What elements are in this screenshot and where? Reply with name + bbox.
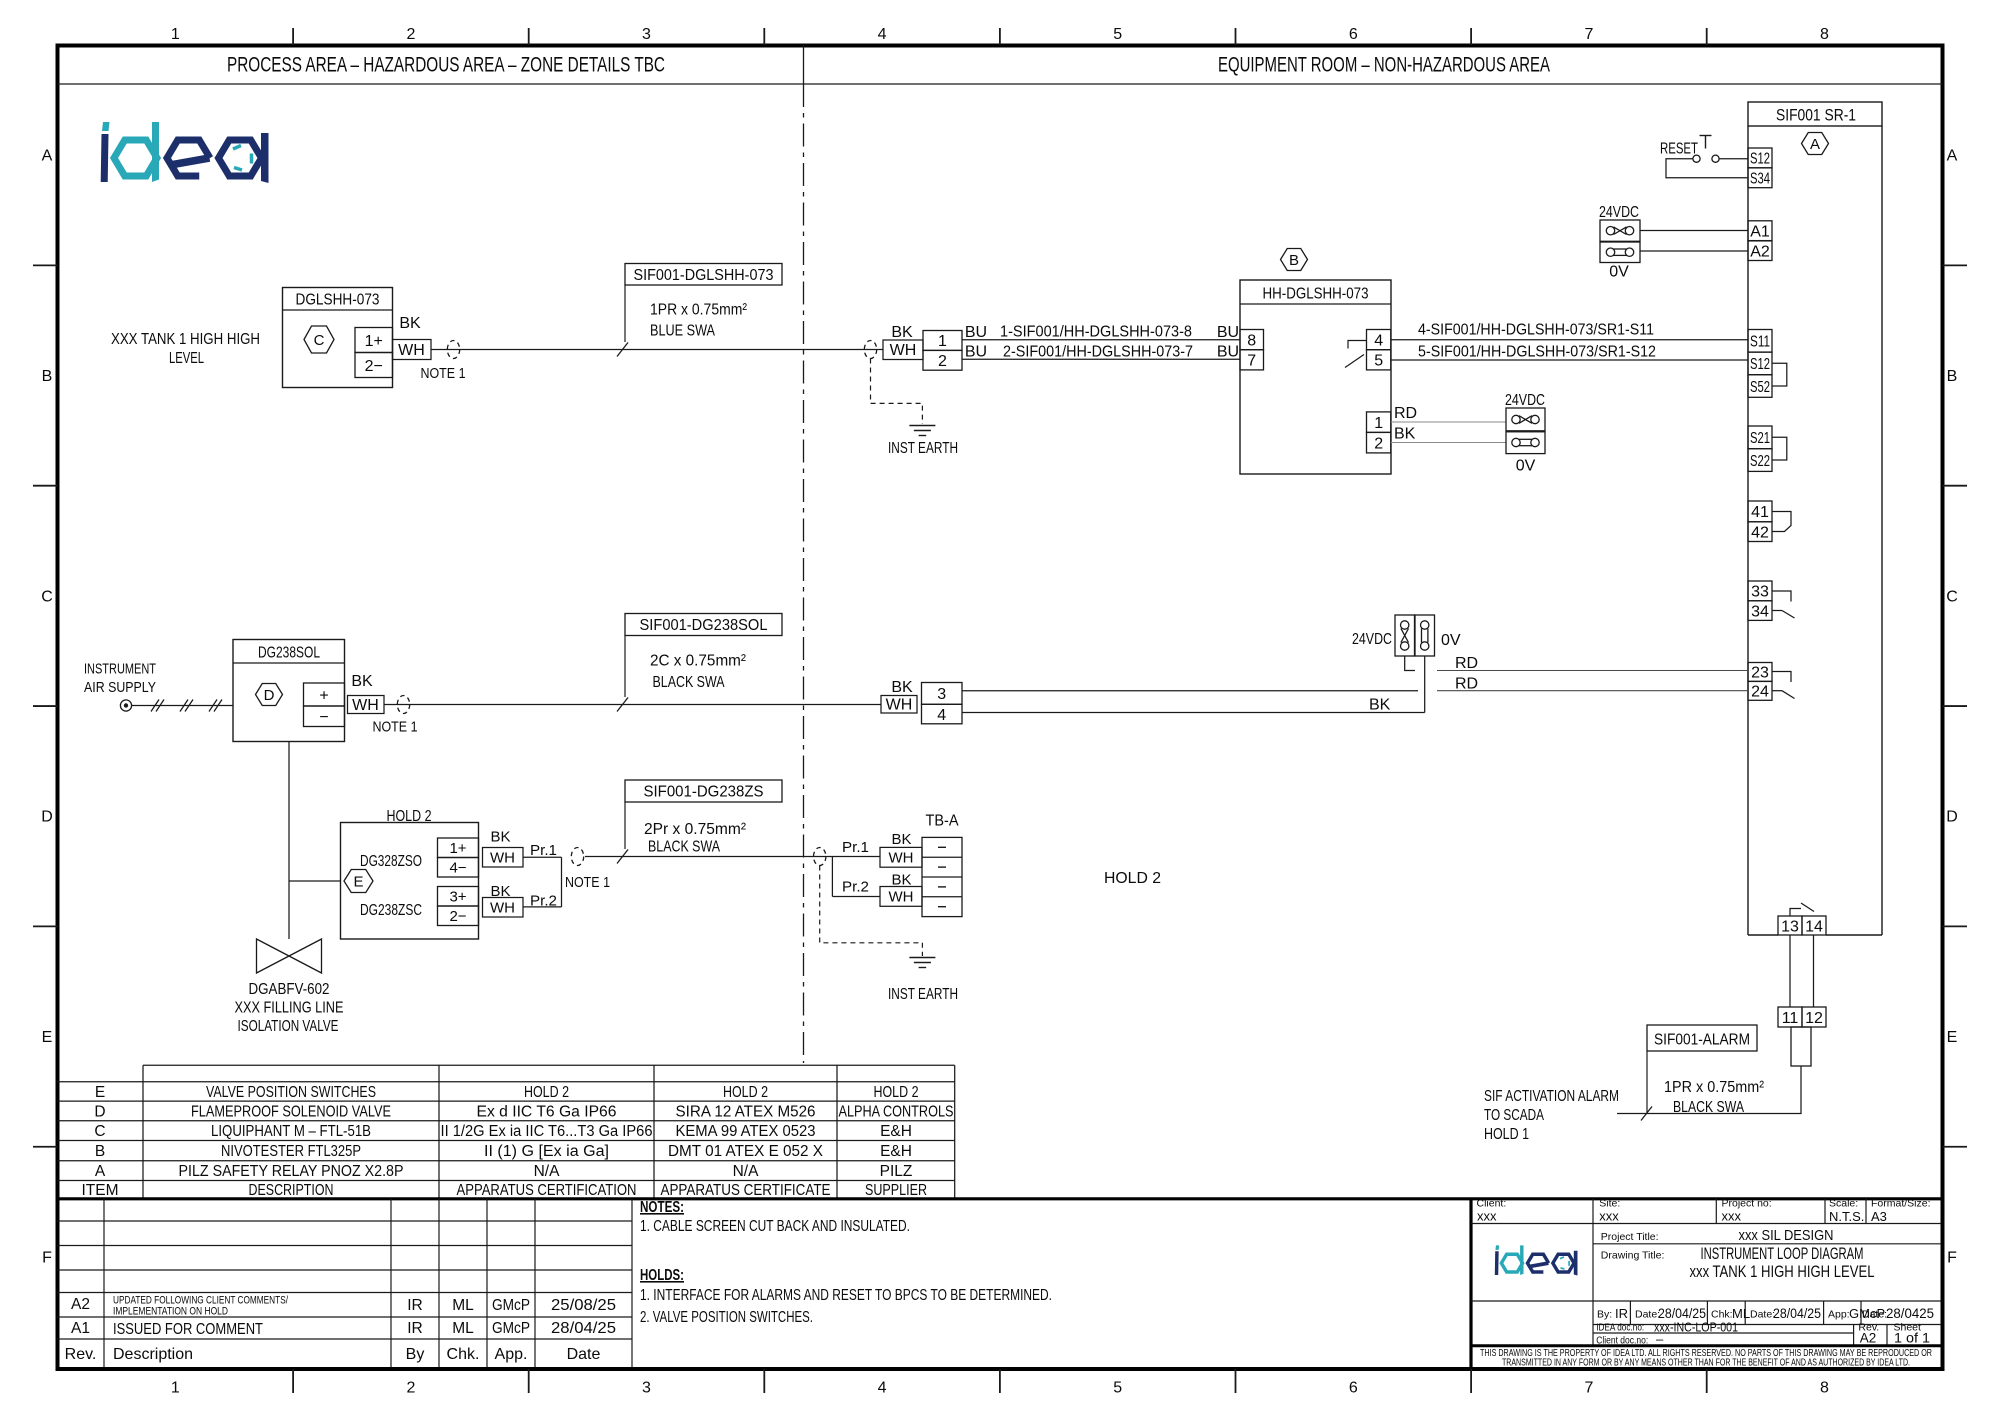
wire terminal 5 to safety relay S12 bbox=[1391, 359, 1748, 361]
screen drain to instrument earth bbox=[871, 359, 923, 425]
svg-text:BK: BK bbox=[1394, 426, 1416, 443]
stub from 24VDC fuse bbox=[1405, 656, 1415, 671]
header strip line bbox=[58, 83, 1943, 85]
svg-text:II (1) G [Ex ia Ga]: II (1) G [Ex ia Ga] bbox=[484, 1143, 609, 1160]
svg-text:5: 5 bbox=[1113, 1380, 1122, 1397]
svg-text:NIVOTESTER FTL325P: NIVOTESTER FTL325P bbox=[221, 1143, 361, 1160]
link terminal 0V (relay supply) bbox=[1600, 242, 1640, 281]
nivotester supply terminal 2 bbox=[1367, 432, 1391, 453]
svg-text:BLACK SWA: BLACK SWA bbox=[653, 674, 725, 691]
svg-text:4: 4 bbox=[937, 707, 946, 724]
alarm cable wire to scada bbox=[1617, 1066, 1801, 1114]
valve position switch box bbox=[341, 823, 479, 940]
cable wire to panel TB-A bbox=[585, 856, 880, 858]
svg-text:1-SIF001/HH-DGLSHH-073-8: 1-SIF001/HH-DGLSHH-073-8 bbox=[1000, 324, 1192, 341]
svg-text:II 1/2G Ex ia IIC T6...T3: II 1/2G Ex ia IIC T6...T3 Ga IP66 bbox=[441, 1123, 653, 1140]
svg-text:NOTE 1: NOTE 1 bbox=[565, 874, 610, 891]
svg-text:1: 1 bbox=[1374, 415, 1383, 432]
idea logo title block bbox=[1495, 1245, 1578, 1275]
nivotester terminal 8 bbox=[1240, 330, 1264, 350]
air supply pipe with break marks bbox=[132, 700, 233, 712]
svg-text:BK: BK bbox=[351, 673, 373, 690]
cable label box SIF001-DGLSHH-073 bbox=[625, 264, 782, 286]
svg-text:BK: BK bbox=[891, 831, 911, 848]
svg-text:WH: WH bbox=[352, 697, 379, 714]
pair wires join left bbox=[523, 857, 562, 907]
safety relay SR-1 body outline bbox=[1748, 126, 1882, 935]
drawing title rows bbox=[1601, 1245, 1875, 1281]
svg-text:E: E bbox=[1947, 1029, 1958, 1046]
svg-text:TB-A: TB-A bbox=[926, 813, 959, 830]
solenoid valve DG238SOL box bbox=[233, 640, 345, 742]
svg-text:BK: BK bbox=[490, 829, 510, 846]
svg-text:INST EARTH: INST EARTH bbox=[888, 440, 958, 457]
svg-text:DESCRIPTION: DESCRIPTION bbox=[249, 1182, 334, 1199]
svg-text:−: − bbox=[319, 709, 328, 726]
svg-text:2C x 0.75mm²: 2C x 0.75mm² bbox=[650, 653, 747, 670]
svg-text:E&H: E&H bbox=[880, 1143, 912, 1160]
cable gland below 11-12 bbox=[1791, 1027, 1811, 1066]
svg-text:IDEA doc.no:: IDEA doc.no: bbox=[1596, 1322, 1644, 1334]
solenoid terminal + bbox=[304, 683, 345, 706]
svg-text:BLUE SWA: BLUE SWA bbox=[650, 323, 715, 340]
wire nivotester supply positive bbox=[1391, 421, 1506, 423]
wire 24VDC to A1 bbox=[1640, 230, 1748, 232]
svg-text:Drawing Title:: Drawing Title: bbox=[1601, 1250, 1665, 1262]
cable spec 2Pr x 0.75mm2 BLACK SWA bbox=[644, 821, 747, 856]
relay terminal S34 bbox=[1748, 168, 1772, 188]
svg-text:1. INTERFACE FOR ALARMS AN: 1. INTERFACE FOR ALARMS AND RESET TO BPC… bbox=[640, 1287, 1052, 1304]
svg-text:IR: IR bbox=[407, 1297, 423, 1314]
solenoid terminal - bbox=[304, 706, 345, 727]
jumper S12 to S52 bbox=[1772, 363, 1787, 386]
wire 14 to 12 bbox=[1813, 935, 1815, 1007]
svg-text:DGLSHH-073: DGLSHH-073 bbox=[296, 292, 380, 309]
svg-text:Date:: Date: bbox=[1862, 1309, 1887, 1321]
svg-text:Date:: Date: bbox=[1750, 1309, 1775, 1321]
svg-text:B: B bbox=[95, 1143, 105, 1160]
contact symbol 33-34 bbox=[1772, 591, 1795, 618]
svg-text:App:: App: bbox=[1828, 1309, 1850, 1321]
svg-text:S22: S22 bbox=[1750, 453, 1770, 470]
svg-text:xxx: xxx bbox=[1477, 1209, 1497, 1224]
cable label box SIF001-DG238ZS bbox=[625, 780, 782, 802]
svg-text:RESET: RESET bbox=[1660, 141, 1698, 158]
cable spec 1PR x 0.75mm2 BLUE SWA bbox=[650, 302, 748, 340]
svg-text:33: 33 bbox=[1751, 584, 1769, 601]
cable label box SIF001-DG238SOL bbox=[625, 614, 782, 636]
svg-text:ISOLATION VALVE: ISOLATION VALVE bbox=[238, 1018, 339, 1035]
svg-text:2: 2 bbox=[406, 26, 415, 43]
cable screen symbol at transmitter bbox=[447, 341, 459, 359]
svg-text:E: E bbox=[353, 873, 363, 890]
svg-text:BK: BK bbox=[399, 315, 421, 332]
svg-text:B: B bbox=[42, 368, 53, 385]
nivotester terminal 5 bbox=[1367, 350, 1391, 370]
svg-text:xxx: xxx bbox=[1722, 1209, 1742, 1224]
svg-text:2: 2 bbox=[938, 353, 947, 370]
air supply source symbol bbox=[120, 700, 131, 711]
svg-text:PILZ SAFETY RELAY PNOZ X2.: PILZ SAFETY RELAY PNOZ X2.8P bbox=[179, 1163, 404, 1180]
svg-text:7: 7 bbox=[1584, 1380, 1593, 1397]
svg-text:Chk.: Chk. bbox=[447, 1346, 480, 1363]
svg-text:XXX FILLING LINE: XXX FILLING LINE bbox=[235, 1000, 344, 1017]
hexagon E bbox=[344, 870, 373, 893]
service label XXX TANK 1 HIGH HIGH LEVEL bbox=[111, 331, 260, 367]
switch terminal 1+ bbox=[438, 838, 479, 858]
svg-text:A: A bbox=[1810, 136, 1820, 153]
svg-text:APPARATUS CERTIFICATION: APPARATUS CERTIFICATION bbox=[457, 1182, 637, 1199]
svg-text:NOTES:: NOTES: bbox=[640, 1199, 684, 1216]
hexagon D bbox=[256, 684, 283, 706]
cable screen symbol at TB-A side bbox=[814, 848, 826, 866]
relay terminal S21 bbox=[1748, 426, 1772, 449]
svg-text:2Pr x 0.75mm²: 2Pr x 0.75mm² bbox=[644, 821, 747, 838]
wire RD to relay terminal 24 bbox=[1437, 690, 1748, 692]
svg-text:S12: S12 bbox=[1750, 151, 1770, 168]
svg-text:C: C bbox=[314, 332, 325, 349]
svg-text:XXX TANK 1 HIGH HIGH: XXX TANK 1 HIGH HIGH bbox=[111, 331, 260, 348]
project title row bbox=[1601, 1227, 1834, 1244]
core tag box WH pair2 left bbox=[483, 898, 524, 918]
wire 0V to A2 bbox=[1640, 250, 1748, 252]
svg-text:A: A bbox=[42, 148, 53, 165]
revision table texts bbox=[65, 1295, 616, 1364]
fuse terminal 24VDC (relay supply) bbox=[1599, 204, 1640, 241]
svg-text:DG328ZSO: DG328ZSO bbox=[360, 853, 422, 870]
svg-text:E: E bbox=[42, 1029, 53, 1046]
approval row texts bbox=[1597, 1306, 1934, 1321]
svg-text:1. CABLE SCREEN CUT BACK: 1. CABLE SCREEN CUT BACK AND INSULATED. bbox=[640, 1218, 910, 1235]
svg-text:6: 6 bbox=[1349, 1380, 1358, 1397]
svg-text:WH: WH bbox=[889, 850, 914, 867]
svg-text:ML: ML bbox=[452, 1320, 474, 1337]
terminal 2- of DGLSHH-073 bbox=[355, 353, 393, 378]
labels Pr.1 Pr.2 right bbox=[842, 839, 869, 896]
jumper S21 to S22 bbox=[1772, 437, 1787, 460]
item table bold bottom line bbox=[58, 1197, 1943, 1200]
svg-text:WH: WH bbox=[490, 850, 515, 867]
svg-text:A: A bbox=[95, 1163, 106, 1180]
cable screen symbol at marshalling side bbox=[864, 341, 876, 359]
svg-text:3: 3 bbox=[642, 1380, 651, 1397]
svg-text:1+: 1+ bbox=[449, 840, 466, 857]
svg-text:7: 7 bbox=[1584, 26, 1593, 43]
wire terminal 4 to safety relay S11 bbox=[1391, 339, 1748, 341]
svg-text:24VDC: 24VDC bbox=[1599, 204, 1639, 221]
item table grid bbox=[58, 1065, 955, 1198]
panel terminal 3 bbox=[922, 683, 963, 705]
relay terminal 11 bbox=[1778, 1007, 1802, 1027]
zone boundary divider solid segment bbox=[803, 45, 805, 84]
svg-text:BU: BU bbox=[1217, 324, 1239, 341]
svg-text:14: 14 bbox=[1805, 918, 1823, 935]
title block grid bbox=[1471, 1199, 1941, 1367]
svg-text:DG238ZSC: DG238ZSC bbox=[360, 902, 422, 919]
svg-text:BU: BU bbox=[965, 324, 987, 341]
svg-text:Description: Description bbox=[113, 1346, 193, 1363]
terminal block TB-A bbox=[922, 813, 962, 917]
svg-text:Pr.2: Pr.2 bbox=[842, 879, 869, 896]
core tag box WH pair1 right bbox=[880, 847, 922, 867]
valve labels DGABFV-602 bbox=[235, 981, 344, 1035]
svg-text:A: A bbox=[1947, 148, 1958, 165]
svg-text:SUPPLIER: SUPPLIER bbox=[865, 1182, 927, 1199]
svg-text:6: 6 bbox=[1349, 26, 1358, 43]
svg-text:APPARATUS CERTIFICATE: APPARATUS CERTIFICATE bbox=[661, 1182, 831, 1199]
revision table grid bbox=[58, 1199, 633, 1367]
service label instrument air supply bbox=[84, 661, 156, 697]
svg-text:N/A: N/A bbox=[534, 1163, 561, 1180]
wire transmitter to field terminals bbox=[431, 349, 883, 351]
svg-text:IR: IR bbox=[407, 1320, 423, 1337]
idea logo top-left bbox=[101, 122, 269, 183]
svg-text:3: 3 bbox=[937, 686, 946, 703]
vertical link terminal 0V (solenoid supply) bbox=[1415, 615, 1461, 656]
alarm destination text bbox=[1484, 1088, 1619, 1143]
svg-text:FLAMEPROOF SOLENOID VALVE: FLAMEPROOF SOLENOID VALVE bbox=[191, 1104, 391, 1121]
svg-text:GMcP: GMcP bbox=[492, 1297, 530, 1314]
svg-text:C: C bbox=[94, 1123, 105, 1140]
svg-text:SIRA 12 ATEX M526: SIRA 12 ATEX M526 bbox=[676, 1104, 816, 1121]
svg-text:Rev.: Rev. bbox=[65, 1346, 97, 1363]
svg-text:B: B bbox=[1947, 368, 1958, 385]
svg-text:xxx SIL DESIGN: xxx SIL DESIGN bbox=[1739, 1227, 1834, 1244]
svg-text:1PR x 0.75mm²: 1PR x 0.75mm² bbox=[650, 302, 748, 319]
svg-text:ML: ML bbox=[452, 1297, 474, 1314]
cable screen symbol at switch box bbox=[571, 848, 583, 866]
svg-text:E: E bbox=[95, 1084, 105, 1101]
svg-text:App.: App. bbox=[495, 1346, 528, 1363]
svg-text:SIF001-DG238ZS: SIF001-DG238ZS bbox=[644, 784, 764, 801]
wire core 2 to nivotester terminal 7 bbox=[962, 358, 1240, 360]
instrument earth symbol (transmitter cable) bbox=[888, 426, 958, 458]
notes heading and note 1 bbox=[640, 1199, 910, 1235]
svg-text:WH: WH bbox=[490, 900, 515, 917]
leader line for SIF001-ALARM bbox=[1646, 1051, 1648, 1114]
svg-text:Client doc.no:: Client doc.no: bbox=[1596, 1335, 1648, 1347]
svg-text:KEMA 99 ATEX 0523: KEMA 99 ATEX 0523 bbox=[676, 1123, 816, 1140]
relay terminal S52 bbox=[1748, 375, 1772, 398]
core tag box WH panel side solenoid bbox=[881, 696, 917, 714]
svg-text:Format/Size:: Format/Size: bbox=[1871, 1198, 1931, 1210]
svg-text:S21: S21 bbox=[1750, 430, 1770, 447]
svg-text:2: 2 bbox=[1374, 435, 1383, 452]
cable marker slash on alarm wire bbox=[1641, 1107, 1652, 1121]
wire BK from solenoid terminal 3 bbox=[962, 690, 1418, 692]
svg-text:1: 1 bbox=[171, 26, 180, 43]
core tag box WH at field terminals bbox=[883, 340, 923, 360]
svg-text:F: F bbox=[1947, 1249, 1957, 1266]
core colour labels BU right bbox=[1217, 324, 1239, 361]
svg-text:24VDC: 24VDC bbox=[1352, 631, 1392, 648]
supply core labels RD BK bbox=[1394, 405, 1417, 443]
svg-text:24: 24 bbox=[1751, 684, 1769, 701]
svg-text:PILZ: PILZ bbox=[880, 1163, 913, 1180]
stub to valve position switch box bbox=[289, 880, 341, 882]
svg-text:IR: IR bbox=[1615, 1306, 1628, 1321]
core tag box WH pair1 left bbox=[483, 848, 524, 868]
svg-text:5-SIF001/HH-DGLSHH-073/SR1-S12: 5-SIF001/HH-DGLSHH-073/SR1-S12 bbox=[1418, 343, 1656, 360]
svg-text:BK: BK bbox=[891, 324, 913, 341]
svg-text:Scale:: Scale: bbox=[1829, 1198, 1858, 1210]
relay terminal 13 bbox=[1778, 916, 1802, 935]
svg-text:GMcP: GMcP bbox=[492, 1320, 530, 1337]
svg-text:WH: WH bbox=[890, 342, 917, 359]
copyright disclaimer bbox=[1480, 1348, 1932, 1368]
svg-text:ITEM: ITEM bbox=[81, 1182, 118, 1199]
svg-text:0V: 0V bbox=[1609, 264, 1629, 281]
svg-text:4: 4 bbox=[1374, 332, 1383, 349]
hexagon B bbox=[1281, 249, 1308, 271]
svg-text:0V: 0V bbox=[1441, 632, 1461, 649]
svg-text:1: 1 bbox=[171, 1380, 180, 1397]
labels Pr.1 Pr.2 left bbox=[530, 842, 557, 910]
svg-text:By:: By: bbox=[1597, 1309, 1612, 1321]
svg-text:S11: S11 bbox=[1750, 334, 1770, 351]
svg-text:xxx-INC-LOP-001: xxx-INC-LOP-001 bbox=[1654, 1320, 1738, 1335]
wire solenoid to panel terminals bbox=[384, 704, 881, 706]
svg-text:F: F bbox=[42, 1249, 52, 1266]
svg-text:2: 2 bbox=[406, 1380, 415, 1397]
svg-text:+: + bbox=[319, 687, 328, 704]
relay terminal S22 bbox=[1748, 449, 1772, 472]
svg-text:HOLDS:: HOLDS: bbox=[640, 1267, 684, 1284]
title block row1 texts bbox=[1477, 1198, 1931, 1225]
fuse terminal 24VDC (nivotester supply) bbox=[1505, 392, 1545, 431]
switch terminal 3+ bbox=[438, 887, 479, 907]
svg-text:HOLD 2: HOLD 2 bbox=[524, 1084, 569, 1101]
relay terminal 41 bbox=[1748, 501, 1772, 522]
svg-text:C: C bbox=[1946, 588, 1958, 605]
svg-text:HOLD 2: HOLD 2 bbox=[723, 1084, 768, 1101]
svg-text:E&H: E&H bbox=[880, 1123, 912, 1140]
cable screen symbol at solenoid bbox=[397, 696, 409, 714]
svg-text:25/08/25: 25/08/25 bbox=[551, 1297, 616, 1314]
svg-text:2−: 2− bbox=[365, 358, 383, 375]
relay terminal S12 (top) bbox=[1748, 148, 1772, 168]
svg-text:xxx: xxx bbox=[1599, 1209, 1619, 1224]
svg-text:HH-DGLSHH-073: HH-DGLSHH-073 bbox=[1263, 286, 1369, 303]
svg-text:3: 3 bbox=[642, 26, 651, 43]
svg-text:4−: 4− bbox=[449, 860, 466, 877]
svg-text:PROCESS AREA – HAZARDOUS A: PROCESS AREA – HAZARDOUS AREA – ZONE DET… bbox=[227, 53, 665, 77]
svg-text:BK: BK bbox=[891, 679, 913, 696]
nivotester output contact symbol bbox=[1345, 341, 1366, 368]
svg-text:WH: WH bbox=[889, 889, 914, 906]
level switch DGLSHH-073 box bbox=[283, 288, 393, 388]
core tag box WH pair2 right bbox=[880, 887, 922, 907]
svg-text:IMPLEMENTATION ON HOLD: IMPLEMENTATION ON HOLD bbox=[113, 1306, 228, 1318]
relay terminal A1 bbox=[1748, 221, 1772, 241]
leader line for cable SIF001-DG238SOL bbox=[617, 636, 628, 712]
core tag box WH at solenoid bbox=[348, 696, 385, 715]
svg-text:2-SIF001/HH-DGLSHH-073-7: 2-SIF001/HH-DGLSHH-073-7 bbox=[1003, 344, 1193, 361]
svg-text:A2: A2 bbox=[1750, 243, 1770, 260]
svg-text:8: 8 bbox=[1820, 1380, 1829, 1397]
svg-text:S12: S12 bbox=[1750, 356, 1770, 373]
svg-text:B: B bbox=[1289, 252, 1299, 269]
svg-text:A3: A3 bbox=[1871, 1209, 1887, 1224]
svg-text:TRANSMITTED IN ANY FORM OR: TRANSMITTED IN ANY FORM OR BY ANY MEANS … bbox=[1502, 1358, 1910, 1369]
svg-text:1PR x 0.75mm²: 1PR x 0.75mm² bbox=[1664, 1079, 1765, 1096]
svg-text:11: 11 bbox=[1782, 1010, 1799, 1027]
relay terminal 34 bbox=[1748, 601, 1772, 621]
svg-text:34: 34 bbox=[1751, 603, 1769, 620]
svg-text:A2: A2 bbox=[1860, 1331, 1877, 1346]
switch terminal 4- bbox=[438, 858, 479, 878]
svg-text:4: 4 bbox=[878, 26, 887, 43]
svg-text:Pr.1: Pr.1 bbox=[842, 839, 869, 856]
svg-text:–: – bbox=[1656, 1332, 1664, 1347]
solenoid pneumatic line down to valve bbox=[288, 742, 290, 940]
svg-text:1 of 1: 1 of 1 bbox=[1894, 1331, 1930, 1346]
cable spec 2C x 0.75mm2 BLACK SWA bbox=[650, 653, 747, 692]
svg-text:2. VALVE POSITION SWITCHES.: 2. VALVE POSITION SWITCHES. bbox=[640, 1309, 813, 1326]
svg-text:12: 12 bbox=[1805, 1010, 1823, 1027]
relay terminal A2 bbox=[1748, 241, 1772, 261]
hexagon A bbox=[1802, 133, 1829, 155]
svg-text:S52: S52 bbox=[1750, 379, 1770, 396]
leader line for cable SIF001-DGLSHH-073 bbox=[617, 285, 628, 357]
holds heading and hold notes bbox=[640, 1267, 1052, 1326]
svg-text:28/04/25: 28/04/25 bbox=[1773, 1306, 1821, 1321]
svg-text:EQUIPMENT ROOM – NON-HAZARD: EQUIPMENT ROOM – NON-HAZARDOUS AREA bbox=[1218, 53, 1550, 77]
svg-text:NOTE 1: NOTE 1 bbox=[373, 719, 418, 736]
svg-text:Date: Date bbox=[567, 1346, 601, 1363]
field terminal 2 bbox=[923, 350, 962, 370]
svg-text:5: 5 bbox=[1113, 26, 1122, 43]
svg-text:SIF001-DG238SOL: SIF001-DG238SOL bbox=[640, 617, 768, 634]
svg-text:28/04/25: 28/04/25 bbox=[551, 1320, 616, 1337]
svg-text:A1: A1 bbox=[1750, 223, 1770, 240]
svg-text:D: D bbox=[94, 1104, 105, 1121]
svg-text:LIQUIPHANT M – FTL-51B: LIQUIPHANT M – FTL-51B bbox=[211, 1123, 371, 1140]
reset pushbutton bbox=[1660, 136, 1719, 163]
svg-text:SIF001-DGLSHH-073: SIF001-DGLSHH-073 bbox=[634, 267, 774, 284]
terminal 1+ of DGLSHH-073 bbox=[355, 328, 393, 353]
contact symbol 13-14 bbox=[1790, 903, 1814, 916]
labels RD RD on relay wires bbox=[1455, 655, 1478, 692]
svg-text:S34: S34 bbox=[1750, 171, 1770, 188]
svg-text:INSTRUMENT LOOP DIAGRAM: INSTRUMENT LOOP DIAGRAM bbox=[1701, 1245, 1864, 1263]
relay terminal S11 bbox=[1748, 330, 1772, 353]
svg-text:0V: 0V bbox=[1516, 458, 1536, 475]
svg-text:A2: A2 bbox=[71, 1296, 90, 1313]
svg-text:41: 41 bbox=[1751, 504, 1769, 521]
svg-text:Ex d IIC T6 Ga IP66: Ex d IIC T6 Ga IP66 bbox=[477, 1104, 617, 1121]
svg-text:INSTRUMENT: INSTRUMENT bbox=[84, 661, 156, 678]
svg-text:SIF ACTIVATION ALARM: SIF ACTIVATION ALARM bbox=[1484, 1088, 1619, 1105]
svg-text:23: 23 bbox=[1751, 665, 1769, 682]
svg-text:D: D bbox=[264, 687, 275, 704]
svg-text:1+: 1+ bbox=[365, 333, 383, 350]
switch terminal 2- bbox=[438, 906, 479, 926]
svg-text:D: D bbox=[1946, 809, 1958, 826]
wire reset button to S12 bbox=[1719, 158, 1748, 160]
svg-text:Project Title:: Project Title: bbox=[1601, 1231, 1659, 1243]
svg-text:8: 8 bbox=[1247, 332, 1256, 349]
svg-text:By: By bbox=[406, 1346, 425, 1363]
svg-text:HOLD 1: HOLD 1 bbox=[1484, 1126, 1529, 1143]
core colour labels BU left bbox=[965, 324, 987, 361]
svg-text:D: D bbox=[41, 809, 53, 826]
svg-text:N/A: N/A bbox=[733, 1163, 760, 1180]
svg-text:xxx TANK 1 HIGH HIGH LEVE: xxx TANK 1 HIGH HIGH LEVEL bbox=[1690, 1263, 1875, 1281]
hexagon C bbox=[304, 326, 334, 353]
wire nivotester supply negative bbox=[1391, 442, 1506, 444]
leader line for cable SIF001-DG238ZS bbox=[617, 802, 628, 864]
